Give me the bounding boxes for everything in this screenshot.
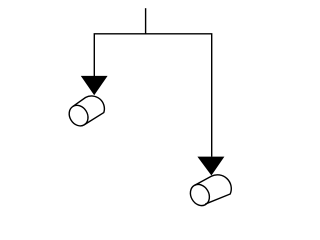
- wire: horizontal bus with left and right vertical drops: [94, 34, 211, 157]
- cylinder 1: left tilted cylinder body and cap: [73, 96, 105, 125]
- arrowhead: left filled triangle: [81, 76, 108, 95]
- arrowhead: right filled triangle: [197, 157, 224, 176]
- cylinder 2: right face ellipse: [187, 181, 214, 209]
- wire: top stub: [145, 8, 147, 34]
- cylinder 2: right tilted cylinder body and cap: [195, 175, 232, 204]
- cylinder 1: left face ellipse: [65, 102, 91, 130]
